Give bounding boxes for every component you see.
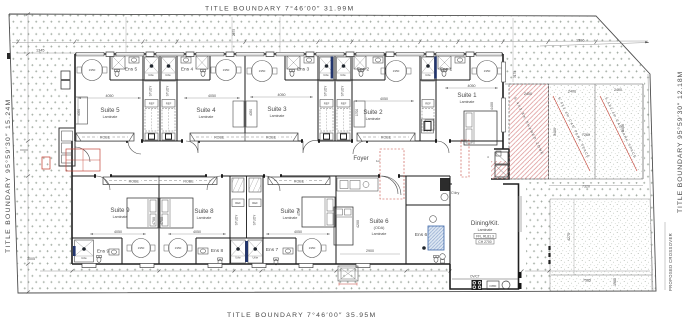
svg-text:Dining/Kit.: Dining/Kit. bbox=[471, 220, 499, 227]
table bbox=[477, 61, 498, 82]
toilet bbox=[115, 69, 120, 76]
bed bbox=[464, 111, 497, 145]
svg-text:Laminate: Laminate bbox=[113, 215, 128, 219]
dining windows right bbox=[518, 196, 520, 232]
svg-text:4050: 4050 bbox=[208, 94, 216, 98]
svg-text:REF: REF bbox=[425, 102, 431, 106]
svg-text:Ens 2: Ens 2 bbox=[357, 67, 370, 73]
svg-text:Ut/te: Ut/te bbox=[235, 256, 241, 260]
crossover inner lines bbox=[551, 274, 652, 276]
svg-text:4700: 4700 bbox=[297, 209, 301, 216]
bed bbox=[334, 207, 353, 245]
svg-text:2400: 2400 bbox=[524, 92, 532, 96]
svg-text:Ens 4: Ens 4 bbox=[181, 67, 194, 73]
svg-text:Suite 1: Suite 1 bbox=[457, 92, 477, 99]
dim line bbox=[250, 96, 313, 98]
svg-text:Laminate: Laminate bbox=[199, 115, 214, 119]
navy door ens3 bbox=[331, 57, 334, 79]
svg-text:4700: 4700 bbox=[152, 217, 156, 225]
shower cell bbox=[248, 240, 263, 263]
svg-text:REF: REF bbox=[252, 201, 258, 205]
svg-text:Ut/te: Ut/te bbox=[165, 73, 171, 77]
dim line bbox=[184, 97, 240, 99]
svg-text:1950: 1950 bbox=[89, 68, 96, 72]
svg-text:F88F: F88F bbox=[489, 284, 496, 288]
svg-text:TITLE BOUNDARY 95°59′30″: TITLE BOUNDARY 95°59′30″ 12.18M bbox=[676, 71, 684, 213]
svg-text:STUDY: STUDY bbox=[149, 85, 153, 97]
porch red dim bbox=[339, 283, 357, 285]
red dashed path dining bbox=[461, 140, 469, 177]
table bbox=[169, 239, 188, 258]
svg-text:REF: REF bbox=[341, 102, 347, 106]
meter boxes left wall bbox=[61, 71, 70, 80]
dim line bbox=[266, 233, 330, 235]
svg-text:Suite 3: Suite 3 bbox=[267, 106, 287, 113]
svg-text:Ens 1: Ens 1 bbox=[440, 67, 453, 73]
building outer walls bbox=[72, 54, 519, 289]
table bbox=[386, 61, 407, 82]
corridor walls bbox=[72, 141, 503, 176]
building footprint white cover bbox=[71, 51, 506, 266]
svg-text:3175: 3175 bbox=[513, 71, 517, 78]
bins store bbox=[495, 152, 508, 164]
car space 3 bbox=[600, 96, 637, 171]
svg-text:Ens 7: Ens 7 bbox=[266, 247, 279, 253]
robe bbox=[357, 133, 415, 141]
svg-text:7320: 7320 bbox=[582, 185, 590, 189]
svg-text:1950: 1950 bbox=[259, 69, 266, 73]
svg-text:ROBE: ROBE bbox=[294, 179, 305, 183]
svg-text:4700: 4700 bbox=[160, 217, 164, 225]
svg-text:Suite 5: Suite 5 bbox=[100, 107, 120, 114]
accessible space red hatch bbox=[491, 84, 549, 179]
toilet bbox=[359, 69, 364, 76]
laundry bbox=[440, 178, 450, 191]
svg-text:REF: REF bbox=[149, 102, 155, 106]
svg-text:STUDY: STUDY bbox=[235, 214, 239, 226]
door jambs bbox=[94, 139, 451, 178]
svg-text:Laminate: Laminate bbox=[460, 100, 475, 104]
svg-text:1700: 1700 bbox=[355, 109, 359, 116]
svg-text:4050: 4050 bbox=[77, 109, 81, 116]
svg-text:7260: 7260 bbox=[582, 133, 590, 137]
projection lines top strip bbox=[126, 17, 513, 82]
bottom row partitions bbox=[72, 176, 452, 264]
vanity basin bbox=[283, 248, 293, 254]
svg-text:Ens 6: Ens 6 bbox=[415, 232, 428, 238]
vanity basin bbox=[304, 57, 314, 63]
shower cell bbox=[112, 56, 125, 69]
left dimension chain bbox=[27, 15, 29, 292]
suite 4 couch bbox=[233, 101, 244, 127]
shower cell bbox=[438, 56, 451, 69]
svg-text:1m: 1m bbox=[376, 159, 381, 163]
svg-text:4275: 4275 bbox=[567, 233, 571, 241]
svg-text:1950: 1950 bbox=[175, 246, 182, 250]
bed bbox=[127, 198, 158, 228]
svg-text:Foyer: Foyer bbox=[353, 156, 368, 162]
svg-text:FFL RL81.3: FFL RL81.3 bbox=[476, 235, 494, 239]
shower cell bbox=[320, 57, 334, 81]
svg-text:Ut/te: Ut/te bbox=[253, 256, 259, 260]
shower cell bbox=[75, 240, 94, 262]
svg-text:Laminate: Laminate bbox=[103, 115, 118, 119]
svg-text:(ODA): (ODA) bbox=[374, 226, 385, 230]
svg-text:ROBE: ROBE bbox=[266, 136, 277, 140]
svg-text:4400: 4400 bbox=[490, 102, 494, 110]
svg-text:CH 2700: CH 2700 bbox=[478, 240, 491, 244]
svg-text:4200: 4200 bbox=[356, 220, 360, 228]
shower cell bbox=[354, 56, 366, 69]
suite 5 couch bbox=[75, 97, 88, 124]
parking area frame bbox=[505, 84, 643, 179]
vanity basin bbox=[455, 57, 465, 63]
svg-text:PROPOSED CROSSOVER: PROPOSED CROSSOVER bbox=[668, 233, 673, 291]
svg-text:1950: 1950 bbox=[484, 69, 491, 73]
svg-text:Ens 9: Ens 9 bbox=[97, 249, 110, 255]
crossover pavement bbox=[550, 199, 653, 291]
right dimension chain bbox=[648, 74, 652, 291]
shower cell bbox=[145, 57, 159, 81]
electrical cupboard left bbox=[59, 128, 75, 166]
gate dashes bbox=[548, 246, 550, 264]
dim line bbox=[445, 87, 498, 89]
svg-text:Suite 6: Suite 6 bbox=[369, 218, 389, 225]
wall piers top bbox=[106, 52, 114, 57]
window strips top wall bbox=[76, 52, 104, 56]
svg-text:C′dry: C′dry bbox=[451, 191, 459, 195]
toilet bbox=[97, 255, 102, 262]
svg-text:4050: 4050 bbox=[380, 97, 388, 101]
svg-text:5000: 5000 bbox=[621, 124, 625, 132]
shower cell bbox=[196, 56, 208, 69]
svg-text:3005: 3005 bbox=[27, 257, 35, 261]
svg-text:4050: 4050 bbox=[249, 109, 253, 116]
right wall windows suite1 bbox=[502, 62, 506, 82]
toilet bbox=[201, 69, 206, 76]
right cells small fixtures bbox=[496, 151, 501, 156]
shower cell bbox=[287, 56, 300, 69]
door arcs corridor bbox=[75, 141, 449, 195]
entry porch bbox=[338, 266, 358, 281]
svg-text:1950: 1950 bbox=[393, 69, 400, 73]
svg-text:1950: 1950 bbox=[309, 246, 316, 250]
svg-text:2900: 2900 bbox=[366, 249, 374, 253]
table bbox=[216, 60, 237, 81]
robe bbox=[190, 133, 298, 141]
svg-text:Ens 8: Ens 8 bbox=[211, 248, 224, 254]
svg-text:Ut/te: Ut/te bbox=[148, 73, 154, 77]
bed bbox=[302, 197, 335, 227]
svg-text:Suite 8: Suite 8 bbox=[194, 208, 214, 215]
shower cell bbox=[231, 240, 246, 263]
table bbox=[303, 239, 322, 258]
blue shower pad bbox=[428, 226, 444, 250]
svg-text:7585: 7585 bbox=[583, 279, 591, 283]
svg-text:2400: 2400 bbox=[568, 90, 576, 94]
vanity basin bbox=[129, 57, 139, 63]
svg-text:2575: 2575 bbox=[232, 29, 236, 36]
svg-text:1950: 1950 bbox=[138, 246, 145, 250]
robe bbox=[103, 177, 217, 185]
svg-text:REF: REF bbox=[324, 102, 330, 106]
svg-text:TITLE BOUNDARY 95°59′30″: TITLE BOUNDARY 95°59′30″ 15.24M bbox=[4, 99, 12, 254]
svg-text:REF: REF bbox=[166, 102, 172, 106]
svg-text:4050: 4050 bbox=[193, 230, 201, 234]
svg-text:ROBE: ROBE bbox=[214, 136, 225, 140]
vanity basin bbox=[373, 57, 383, 63]
svg-text:1596: 1596 bbox=[576, 39, 584, 43]
suite6 kitchenette bbox=[337, 178, 378, 191]
svg-text:1950: 1950 bbox=[223, 68, 230, 72]
shower cell bbox=[337, 57, 351, 81]
red dashed foyer rect bbox=[380, 149, 404, 199]
table bbox=[82, 60, 103, 81]
letterbox red bbox=[42, 157, 50, 169]
svg-text:Ut/te: Ut/te bbox=[425, 73, 431, 77]
toilet bbox=[274, 258, 279, 265]
svg-text:Ut/te: Ut/te bbox=[323, 73, 329, 77]
kitchen bench bbox=[452, 278, 518, 280]
svg-text:Laminate: Laminate bbox=[197, 216, 212, 220]
robe bbox=[76, 133, 134, 141]
red cupboard marking bbox=[66, 149, 100, 171]
svg-text:1985: 1985 bbox=[613, 278, 617, 286]
shower cell bbox=[422, 57, 435, 81]
svg-text:REF: REF bbox=[235, 201, 241, 205]
svg-text:4050: 4050 bbox=[468, 84, 476, 88]
dim line bbox=[78, 97, 141, 99]
survey peg top-left bbox=[7, 53, 11, 59]
svg-text:STUDY: STUDY bbox=[324, 85, 328, 97]
svg-text:ROBE: ROBE bbox=[183, 179, 194, 183]
shower cell bbox=[162, 57, 176, 81]
svg-text:Suite 2: Suite 2 bbox=[363, 109, 383, 116]
dim line bbox=[354, 100, 414, 102]
svg-text:4050: 4050 bbox=[114, 230, 122, 234]
svg-text:ROBE: ROBE bbox=[129, 179, 140, 183]
svg-text:Ut/te: Ut/te bbox=[340, 73, 346, 77]
toilet bbox=[442, 69, 447, 76]
table bbox=[132, 239, 151, 258]
toilet bbox=[290, 69, 295, 76]
dim line bbox=[90, 233, 146, 235]
toilet bbox=[218, 258, 223, 265]
car spaces dotted fill bbox=[549, 84, 644, 179]
svg-text:4050: 4050 bbox=[106, 94, 114, 98]
svg-text:Laminate: Laminate bbox=[372, 232, 387, 236]
suite 2 couch bbox=[354, 101, 365, 127]
suite 3 couch bbox=[246, 101, 257, 127]
svg-text:4050: 4050 bbox=[278, 93, 286, 97]
svg-text:TITLE BOUNDARY 7°46′00″: TITLE BOUNDARY 7°46′00″ 35.95M bbox=[227, 311, 376, 319]
svg-text:2400: 2400 bbox=[614, 88, 622, 92]
svg-text:1345: 1345 bbox=[36, 49, 44, 53]
parking pavement white bbox=[503, 82, 644, 182]
window bumps bottom wall bbox=[82, 263, 96, 267]
svg-text:STUDY: STUDY bbox=[341, 85, 345, 97]
bed bbox=[160, 198, 193, 228]
car space 2 bbox=[553, 96, 590, 171]
bottom dimension chain bbox=[40, 270, 448, 272]
svg-text:Laminate: Laminate bbox=[478, 228, 493, 232]
svg-text:Ens 5: Ens 5 bbox=[125, 67, 138, 73]
svg-text:STUDY: STUDY bbox=[253, 214, 257, 226]
robe column S2-S1 bbox=[422, 100, 434, 108]
svg-text:4050: 4050 bbox=[294, 230, 302, 234]
dim 1596 diagonal bbox=[540, 43, 649, 47]
svg-text:ROBE: ROBE bbox=[100, 136, 111, 140]
vanity basin bbox=[109, 249, 119, 255]
vanity basin bbox=[181, 57, 191, 63]
vanity basin bbox=[198, 248, 208, 254]
svg-text:Laminate: Laminate bbox=[270, 114, 285, 118]
svg-text:Ens 3: Ens 3 bbox=[297, 67, 310, 73]
svg-text:Laminate: Laminate bbox=[283, 216, 298, 220]
robe bbox=[268, 177, 330, 185]
ldry box bbox=[425, 120, 434, 130]
top dimension chain bbox=[12, 41, 648, 43]
svg-text:Ut/te: Ut/te bbox=[81, 256, 87, 260]
svg-text:STUDY: STUDY bbox=[166, 85, 170, 97]
dim 1345 bbox=[18, 52, 75, 54]
svg-text:Laminate: Laminate bbox=[366, 117, 381, 121]
svg-text:5400: 5400 bbox=[553, 128, 557, 136]
toilet bbox=[434, 255, 439, 262]
svg-text:ROBE: ROBE bbox=[381, 136, 392, 140]
svg-text:Suite 4: Suite 4 bbox=[196, 107, 216, 114]
svg-text:TITLE BOUNDARY 7°46′00″ 3: TITLE BOUNDARY 7°46′00″ 31.99M bbox=[205, 5, 354, 13]
dim line bbox=[168, 233, 226, 235]
top row partitions bbox=[110, 54, 470, 141]
study nook columns bottom bbox=[246, 176, 248, 238]
svg-text:OV/CT: OV/CT bbox=[470, 275, 480, 279]
table bbox=[252, 61, 273, 82]
